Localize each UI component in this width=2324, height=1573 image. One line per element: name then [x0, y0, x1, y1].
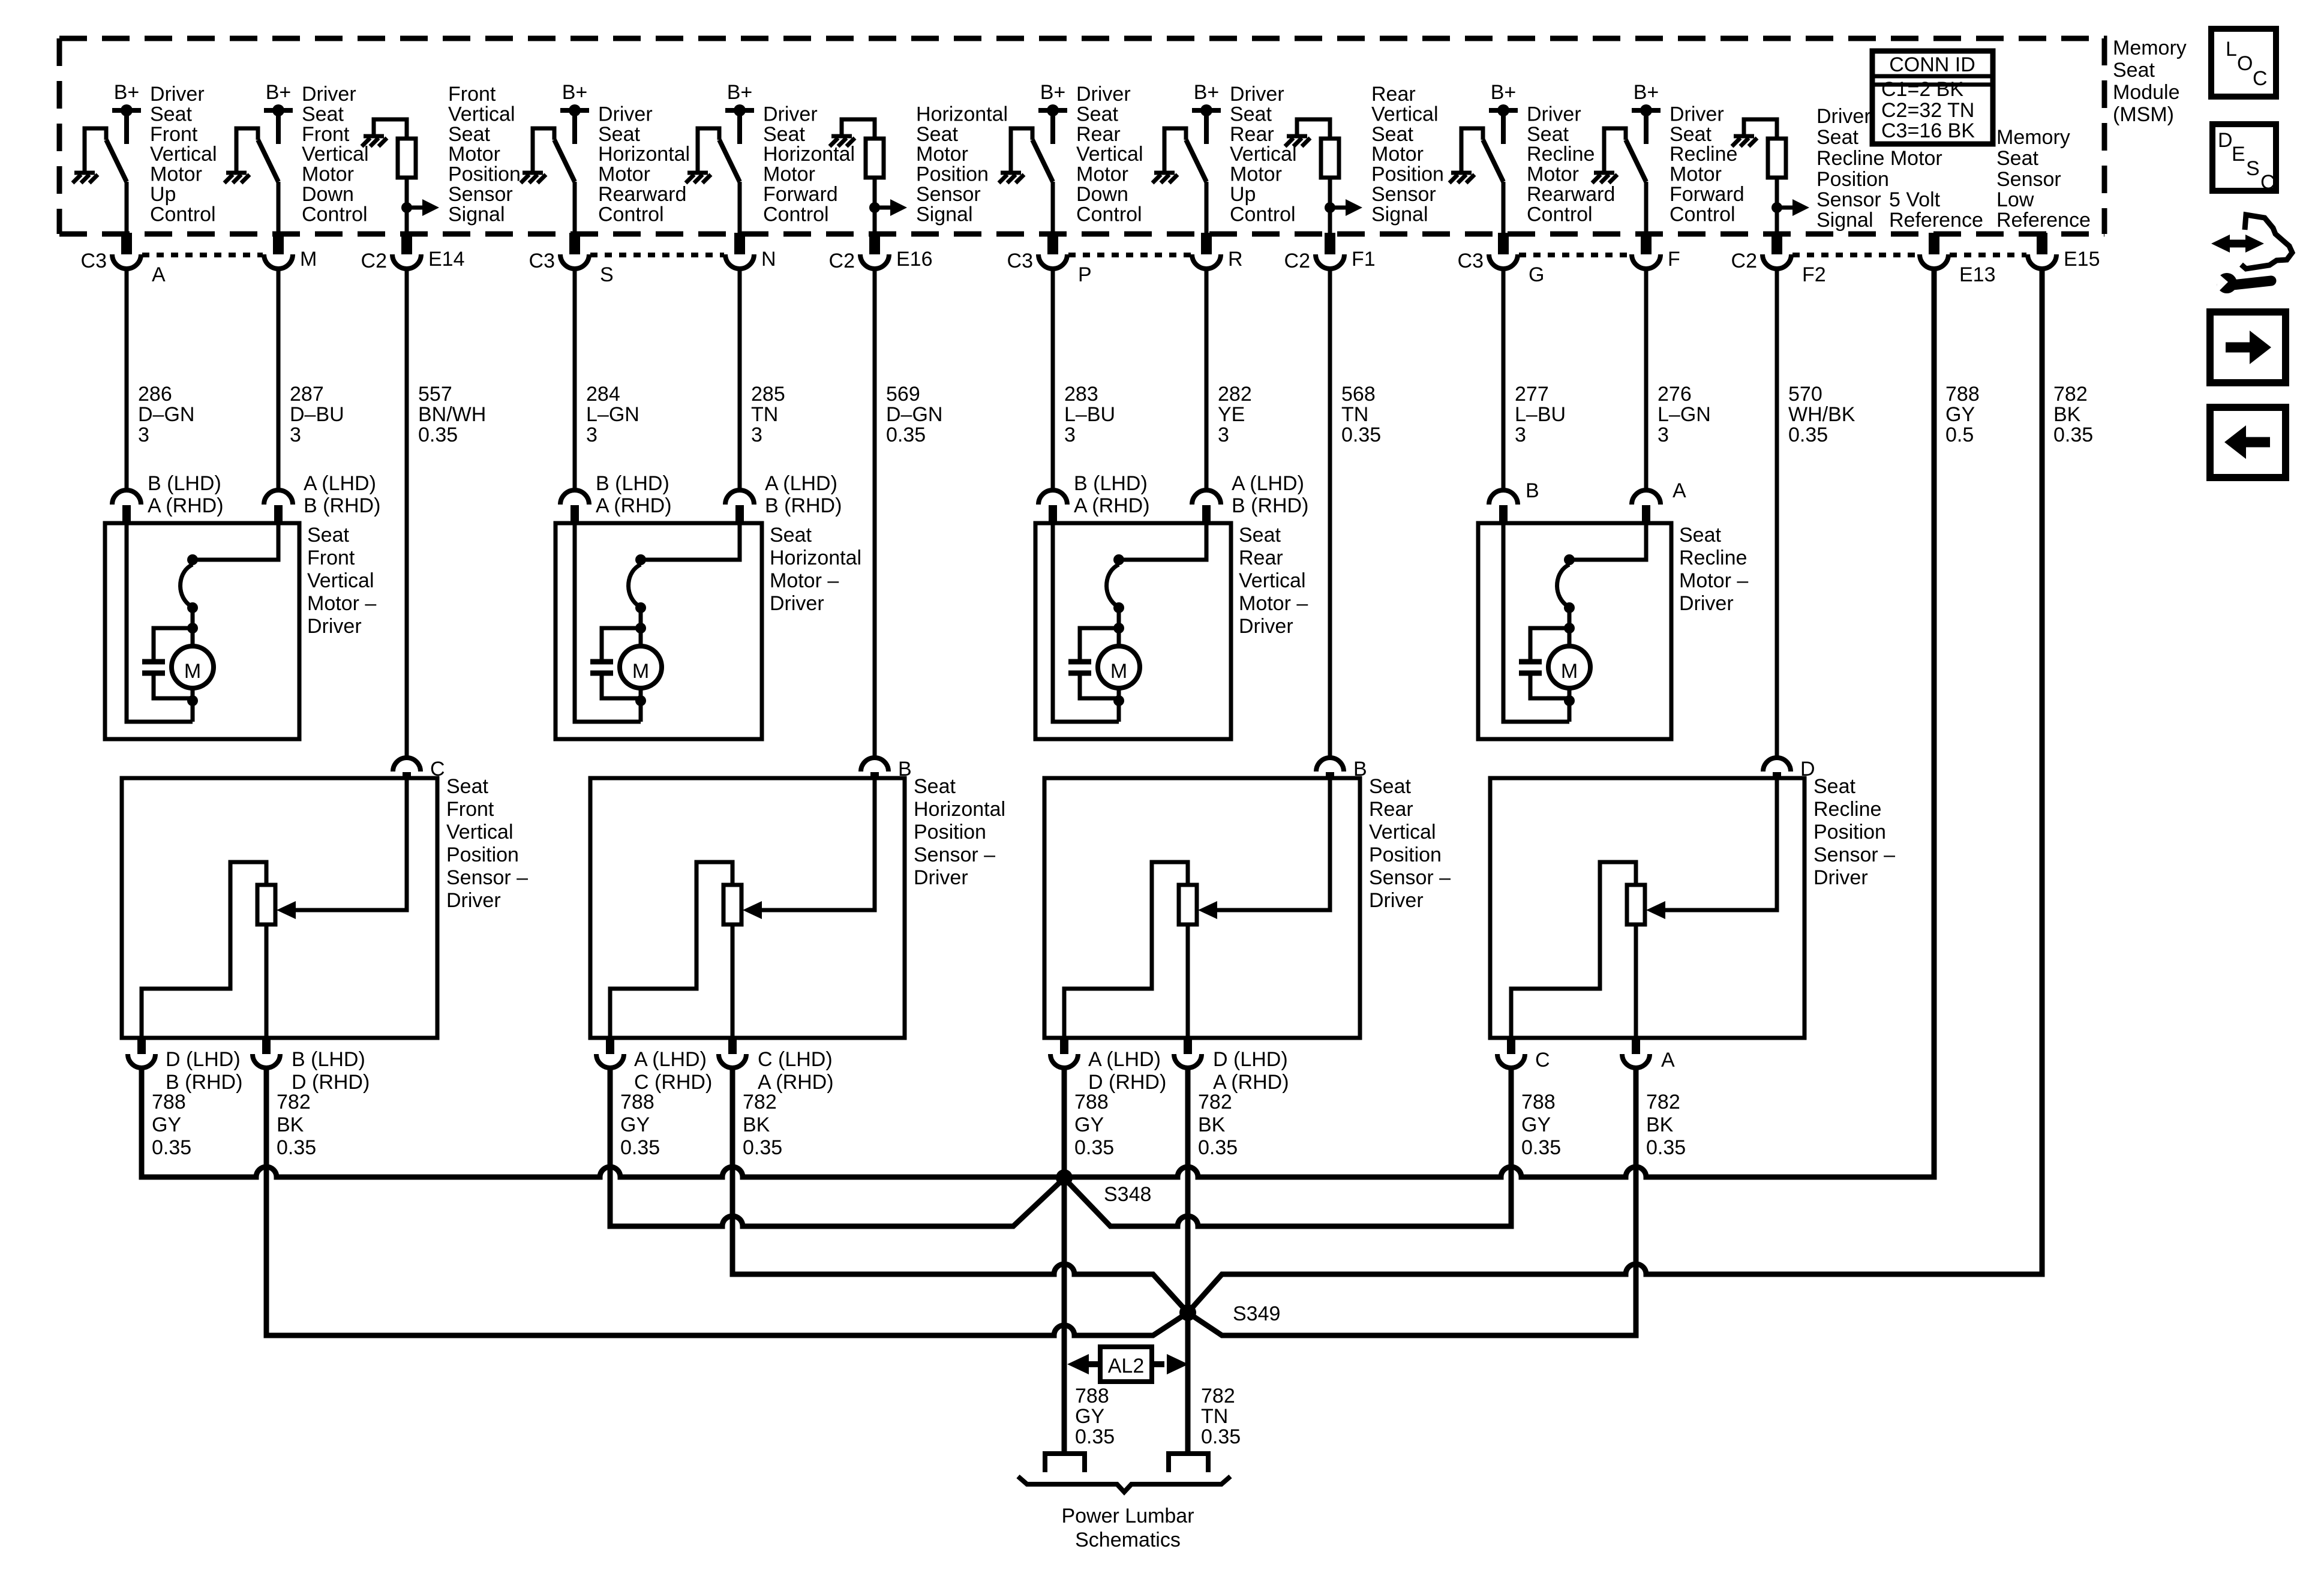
icon box with right arrow	[2210, 312, 2286, 383]
svg-text:Seat: Seat	[307, 524, 349, 547]
svg-text:3: 3	[138, 424, 149, 446]
Seat Recline Position Sensor - Driver box	[1490, 778, 1804, 1038]
svg-text:0.35: 0.35	[1646, 1136, 1686, 1159]
wire 569 from pin E16 down to sensor connector	[873, 269, 877, 758]
motor internal right wire (Front Vertical)	[193, 525, 278, 560]
splice S348	[1056, 1169, 1151, 1206]
svg-text:Forward: Forward	[1670, 183, 1744, 206]
svg-text:E: E	[2232, 143, 2245, 166]
sensor wiper feed wire and arrow (Horizontal)	[743, 780, 875, 919]
potentiometer top wire to left pin (Front Vertical)	[142, 862, 266, 1038]
B+ supply feed for Front Vertical Down control switch	[264, 81, 293, 144]
svg-text:C: C	[2253, 67, 2268, 90]
dotted connector strip line pins E13-E15	[1950, 253, 2026, 257]
svg-text:TN: TN	[751, 403, 778, 426]
svg-text:TN: TN	[1341, 403, 1368, 426]
label for switch F	[1670, 103, 1744, 226]
wire 782 BK from Front Vertical sensor pin B to splice S349 (hops over 788 wire)	[266, 1068, 1188, 1335]
sensor signal tap dot and arrow (Horizontal)	[869, 199, 907, 216]
wire from switch to pin F	[1644, 182, 1649, 233]
connector pin S (C3) at Memory Seat Module	[529, 233, 614, 286]
svg-text:Recline: Recline	[1670, 143, 1737, 166]
svg-text:Rear: Rear	[1371, 83, 1416, 106]
label 5 Volt Reference (pin E13)	[1889, 188, 1983, 232]
svg-text:Motor: Motor	[150, 163, 202, 186]
svg-text:C3: C3	[1007, 250, 1033, 272]
svg-text:Driver: Driver	[446, 889, 501, 912]
module name label Memory Seat Module (MSM)	[2113, 37, 2187, 126]
sensor wiper feed wire and arrow (Front Vertical)	[277, 780, 407, 919]
svg-text:Signal: Signal	[1371, 203, 1428, 226]
svg-text:Seat: Seat	[2113, 59, 2155, 82]
sensor box label (Seat Horizontal Position Sensor - Driver)	[914, 775, 1005, 889]
svg-text:0.35: 0.35	[277, 1136, 316, 1159]
potentiometer top wire to left pin (Horizontal)	[610, 862, 732, 1038]
svg-text:B+: B+	[1491, 81, 1517, 104]
svg-text:B (LHD): B (LHD)	[148, 472, 221, 495]
svg-text:Driver: Driver	[598, 103, 653, 125]
svg-text:788: 788	[1074, 1091, 1109, 1113]
svg-text:C2: C2	[361, 250, 387, 272]
wire from switch to pin R	[1205, 182, 1209, 233]
svg-text:Front: Front	[302, 123, 350, 146]
svg-text:Seat: Seat	[446, 775, 488, 798]
svg-text:B (RHD): B (RHD)	[304, 494, 380, 517]
motor brush arc (Front Vertical)	[181, 554, 198, 646]
wire from switch to pin N	[738, 182, 742, 233]
svg-text:Front: Front	[150, 123, 198, 146]
svg-text:Vertical: Vertical	[307, 569, 374, 592]
svg-text:F: F	[1668, 248, 1680, 271]
svg-text:0.35: 0.35	[886, 424, 926, 446]
connector pin P (C3) at Memory Seat Module	[1007, 233, 1092, 286]
svg-text:M: M	[632, 660, 649, 683]
svg-text:Control: Control	[1230, 203, 1296, 226]
svg-text:285: 285	[751, 383, 785, 406]
svg-text:Driver: Driver	[1679, 592, 1734, 615]
svg-text:Motor –: Motor –	[770, 569, 839, 592]
svg-text:3: 3	[751, 424, 762, 446]
off-page terminal clamp for 788 GY wire	[1045, 1454, 1085, 1472]
wire 782 BK from splice S349 to pin E15 (hops over 782 wire)	[1188, 269, 2042, 1313]
svg-text:5 Volt: 5 Volt	[1889, 188, 1941, 211]
svg-text:Driver: Driver	[1816, 105, 1871, 128]
svg-text:Power Lumbar: Power Lumbar	[1061, 1505, 1194, 1527]
svg-text:BK: BK	[277, 1113, 304, 1136]
svg-text:Sensor –: Sensor –	[446, 866, 528, 889]
svg-text:GY: GY	[1521, 1113, 1551, 1136]
svg-text:E14: E14	[428, 248, 465, 271]
svg-text:M: M	[1110, 660, 1127, 683]
svg-text:Driver: Driver	[302, 83, 356, 106]
motor bottom wire and junction (Front Vertical)	[187, 688, 198, 722]
wire from switch to pin G	[1502, 182, 1506, 233]
svg-text:Position: Position	[1369, 843, 1442, 866]
svg-text:Control: Control	[1670, 203, 1736, 226]
motor M circle (Seat Front Vertical Motor)	[172, 646, 214, 688]
svg-text:Seat: Seat	[916, 123, 958, 146]
svg-text:Driver: Driver	[307, 615, 362, 638]
svg-text:C3=16 BK: C3=16 BK	[1881, 119, 1975, 142]
motor M circle (Seat Recline Motor)	[1548, 646, 1590, 688]
svg-text:C (LHD): C (LHD)	[758, 1048, 833, 1071]
motor internal left wire (Recline)	[1503, 525, 1569, 722]
svg-text:Rear: Rear	[1076, 123, 1121, 146]
sensor signal tap dot and arrow (Front Vertical)	[401, 199, 439, 216]
switch Front Vertical Motor Up Control (pin A)	[85, 128, 127, 182]
wire from switch to pin P	[1051, 182, 1055, 233]
motor internal right wire (Horizontal)	[641, 525, 740, 560]
position sensor feed resistor inside module (Recline)	[1744, 119, 1786, 178]
sensor connector right pin (Recline)	[1622, 1038, 1675, 1071]
wire 277 L–BU from pin G to motor	[1502, 269, 1506, 490]
label for switch N	[763, 103, 855, 226]
B+ supply feed for Rear Vertical Down control switch	[1038, 81, 1067, 144]
position sensor potentiometer (Rear Vertical)	[1179, 885, 1197, 924]
svg-text:Vertical: Vertical	[1076, 143, 1143, 166]
svg-text:Driver: Driver	[1076, 83, 1131, 106]
wire 788 GY from Horizontal sensor pin to splice S348 branch	[610, 1068, 1064, 1226]
wire 557 from pin E14 down to sensor connector	[405, 269, 409, 758]
svg-text:3: 3	[1218, 424, 1229, 446]
wire label circuit 277 L–BU 3	[1515, 383, 1566, 446]
svg-text:0.35: 0.35	[152, 1136, 191, 1159]
svg-text:Rear: Rear	[1239, 547, 1283, 569]
svg-text:E13: E13	[1959, 263, 1996, 286]
svg-text:557: 557	[418, 383, 452, 406]
suppression capacitor across motor (Rear Vertical)	[1068, 628, 1119, 698]
wire 568 from pin F1 down to sensor connector	[1328, 269, 1332, 758]
svg-text:Position: Position	[1371, 163, 1444, 186]
svg-text:0.35: 0.35	[1521, 1136, 1561, 1159]
svg-text:A (RHD): A (RHD)	[1074, 494, 1150, 517]
suppression capacitor across motor (Horizontal)	[590, 628, 641, 698]
motor bottom wire and junction (Rear Vertical)	[1113, 688, 1124, 722]
potentiometer bottom wire to right pin (Front Vertical)	[265, 924, 269, 1038]
svg-text:782: 782	[1201, 1385, 1235, 1407]
svg-text:Memory: Memory	[1996, 126, 2070, 149]
svg-text:Control: Control	[763, 203, 829, 226]
svg-text:AL2: AL2	[1108, 1355, 1145, 1377]
ground for Horizontal Forward control switch	[686, 128, 711, 183]
position sensor potentiometer (Front Vertical)	[257, 885, 275, 924]
motor internal right wire (Recline)	[1569, 525, 1646, 560]
svg-text:Driver: Driver	[1670, 103, 1724, 125]
wire 788 GY bus from splice S348 to pin E13 (hops over 782 wires)	[1064, 269, 1934, 1177]
wire label circuit 788 GY 0.5 (E13)	[1945, 383, 1980, 446]
svg-text:GY: GY	[620, 1113, 650, 1136]
svg-text:Motor –: Motor –	[1239, 592, 1308, 615]
switch Recline Motor Forward Control (pin F)	[1604, 128, 1646, 182]
svg-text:Signal: Signal	[448, 203, 505, 226]
svg-text:C2: C2	[829, 250, 855, 272]
label Memory Seat Sensor Low Reference (pin E15)	[1996, 126, 2091, 232]
svg-text:S349: S349	[1233, 1302, 1280, 1325]
svg-text:Seat: Seat	[763, 123, 805, 146]
svg-text:F2: F2	[1802, 263, 1826, 286]
svg-text:B (LHD): B (LHD)	[292, 1048, 365, 1071]
ground for Recline Rearward control switch	[1449, 128, 1475, 183]
wire 788 GY bus from Front Vertical sensor pin D to splice S348 (hops over 782 wires)	[142, 1068, 1064, 1177]
motor box label (Seat Horizontal Motor - Driver)	[770, 524, 861, 615]
svg-text:3: 3	[1658, 424, 1669, 446]
ground for Recline position sensor resistor	[1732, 136, 1757, 146]
connector pin at Seat Front Vertical Motor left terminal	[112, 472, 224, 523]
Memory Seat Module dashed boundary box	[59, 38, 2104, 234]
svg-text:Front: Front	[446, 798, 494, 821]
svg-text:Sensor: Sensor	[1996, 168, 2061, 191]
svg-text:Sensor: Sensor	[1816, 188, 1881, 211]
svg-text:Sensor: Sensor	[1371, 183, 1436, 206]
svg-text:Seat: Seat	[1813, 775, 1855, 798]
svg-text:570: 570	[1788, 383, 1822, 406]
wire 287 D–BU from pin M to motor	[277, 269, 281, 490]
svg-text:Position: Position	[1816, 168, 1889, 191]
potentiometer bottom wire to right pin (Horizontal)	[731, 924, 735, 1038]
connector pin at Seat Horizontal Motor right terminal	[725, 472, 842, 523]
Seat Rear Vertical Position Sensor - Driver box	[1044, 778, 1360, 1038]
connector pin at Seat Horizontal Motor left terminal	[560, 472, 672, 523]
svg-text:A (RHD): A (RHD)	[596, 494, 672, 517]
wire label circuit 569 D–GN 0.35	[886, 383, 942, 446]
connector pin at Seat Rear Vertical Motor left terminal	[1038, 472, 1150, 523]
svg-text:Control: Control	[150, 203, 216, 226]
svg-text:Motor –: Motor –	[307, 592, 376, 615]
svg-text:0.35: 0.35	[1198, 1136, 1238, 1159]
svg-text:Sensor: Sensor	[448, 183, 513, 206]
svg-text:A (LHD): A (LHD)	[765, 472, 837, 495]
sensor wiper feed wire and arrow (Rear Vertical)	[1198, 780, 1330, 919]
svg-text:Reference: Reference	[1996, 209, 2091, 232]
svg-text:BK: BK	[1198, 1113, 1226, 1136]
wire 570 from pin F2 down to sensor connector	[1775, 269, 1779, 758]
svg-text:Motor: Motor	[916, 143, 968, 166]
svg-text:Seat: Seat	[1239, 524, 1281, 547]
svg-text:(MSM): (MSM)	[2113, 103, 2174, 126]
svg-text:D (LHD): D (LHD)	[1213, 1048, 1288, 1071]
svg-text:Seat: Seat	[914, 775, 956, 798]
svg-text:GY: GY	[1074, 1113, 1104, 1136]
svg-text:Motor: Motor	[763, 163, 815, 186]
svg-text:Recline Motor: Recline Motor	[1816, 147, 1942, 170]
svg-text:N: N	[761, 248, 776, 271]
wire from switch to pin A	[125, 182, 129, 233]
svg-text:D–GN: D–GN	[138, 403, 194, 426]
position sensor potentiometer (Horizontal)	[723, 885, 741, 924]
svg-text:C1=2 BK: C1=2 BK	[1881, 78, 1963, 101]
wire below resistor to pin E16	[873, 178, 877, 233]
svg-text:286: 286	[138, 383, 172, 406]
svg-text:Position: Position	[1813, 821, 1886, 843]
svg-text:BK: BK	[743, 1113, 770, 1136]
wire 286 D–GN from pin A to motor	[125, 269, 129, 490]
ground for Front Vertical Up control switch	[73, 128, 98, 183]
connector pin E14 (C2) at Memory Seat Module	[361, 233, 465, 272]
svg-text:E16: E16	[896, 248, 933, 271]
svg-text:C3: C3	[1458, 250, 1484, 272]
connector pin E13 at Memory Seat Module	[1920, 233, 1996, 286]
motor brush arc (Recline)	[1557, 554, 1575, 646]
motor M circle (Seat Horizontal Motor)	[620, 646, 662, 688]
svg-text:WH/BK: WH/BK	[1788, 403, 1855, 426]
Seat Recline Motor - Driver box	[1478, 523, 1671, 739]
svg-text:B (LHD): B (LHD)	[1074, 472, 1148, 495]
wire from switch to pin M	[277, 182, 281, 233]
svg-text:A (LHD): A (LHD)	[1088, 1048, 1161, 1071]
suppression capacitor across motor (Recline)	[1519, 628, 1569, 698]
wire label circuit 287 D–BU 3	[290, 383, 344, 446]
ground for Horizontal Rearward control switch	[521, 128, 546, 183]
svg-text:Control: Control	[302, 203, 368, 226]
svg-text:Vertical: Vertical	[1371, 103, 1439, 125]
svg-text:GY: GY	[152, 1113, 181, 1136]
wire 788 GY from Recline sensor pin C to splice S348 branch	[1064, 1068, 1511, 1226]
svg-text:Seat: Seat	[598, 123, 640, 146]
svg-text:Horizontal: Horizontal	[914, 798, 1005, 821]
svg-text:O: O	[2237, 52, 2253, 75]
switch Rear Vertical Motor Down Control (pin P)	[1011, 128, 1053, 182]
connector pin G (C3) at Memory Seat Module	[1458, 233, 1545, 286]
svg-text:Recline: Recline	[1679, 547, 1747, 569]
ground for Rear Vertical position sensor resistor	[1285, 136, 1310, 146]
svg-text:Seat: Seat	[1076, 103, 1118, 125]
svg-text:Vertical: Vertical	[302, 143, 369, 166]
sensor connector left pin (Rear Vertical)	[1050, 1038, 1166, 1094]
wire label circuit 782 TN 0.35 (to Power Lumbar)	[1201, 1385, 1241, 1448]
svg-text:F1: F1	[1352, 248, 1376, 271]
svg-text:C: C	[1535, 1049, 1550, 1071]
svg-text:L–GN: L–GN	[1658, 403, 1711, 426]
svg-text:0.35: 0.35	[2053, 424, 2093, 446]
svg-text:Horizontal: Horizontal	[763, 143, 855, 166]
svg-text:Signal: Signal	[1816, 209, 1873, 232]
svg-text:P: P	[1078, 263, 1092, 286]
dotted connector strip line C3 pins A-M	[142, 253, 263, 257]
motor box label (Seat Front Vertical Motor - Driver)	[307, 524, 376, 638]
svg-text:A: A	[1661, 1049, 1675, 1071]
svg-text:0.35: 0.35	[418, 424, 458, 446]
wire 782 TN through splice S349 down to Power Lumbar	[1185, 1068, 1191, 1451]
svg-text:C3: C3	[529, 250, 555, 272]
svg-text:Position: Position	[914, 821, 986, 843]
svg-text:C3: C3	[81, 250, 107, 272]
svg-text:Driver: Driver	[150, 83, 205, 106]
svg-text:Motor: Motor	[302, 163, 354, 186]
svg-text:Rear: Rear	[1369, 798, 1413, 821]
svg-text:S: S	[600, 263, 614, 286]
wire label 782 BK 0.35 (Recline sensor return)	[1646, 1091, 1686, 1159]
svg-text:Control: Control	[1527, 203, 1593, 226]
svg-text:A: A	[1673, 479, 1686, 502]
svg-text:B+: B+	[562, 81, 588, 104]
position sensor potentiometer (Recline)	[1627, 885, 1645, 924]
ground for Rear Vertical Down control switch	[999, 128, 1024, 183]
ground for Horizontal position sensor resistor	[830, 136, 855, 146]
sensor connector left pin (Recline)	[1497, 1038, 1550, 1071]
svg-text:Motor: Motor	[1230, 163, 1282, 186]
svg-text:B+: B+	[266, 81, 292, 104]
brace for Power Lumbar Schematics	[1018, 1476, 1230, 1492]
CONN ID table	[1872, 51, 1993, 144]
svg-text:Motor: Motor	[448, 143, 500, 166]
sensor connector right pin (Horizontal)	[719, 1038, 834, 1094]
switch Horizontal Motor Forward Control (pin N)	[698, 128, 740, 182]
svg-text:Memory: Memory	[2113, 37, 2187, 59]
signal label column (Horizontal Position Sensor Signal)	[916, 103, 1008, 226]
wire label circuit 284 L–GN 3	[586, 383, 639, 446]
svg-text:CONN ID: CONN ID	[1889, 53, 1975, 76]
svg-text:A (LHD): A (LHD)	[634, 1048, 707, 1071]
svg-text:BK: BK	[2053, 403, 2081, 426]
motor internal right wire (Rear Vertical)	[1119, 525, 1206, 560]
svg-text:D: D	[2218, 129, 2233, 152]
switch Horizontal Motor Rearward Control (pin S)	[533, 128, 575, 182]
connector pin at Seat Front Vertical Motor right terminal	[264, 472, 380, 523]
potentiometer bottom wire to right pin (Rear Vertical)	[1186, 924, 1190, 1038]
wire label 788 GY 0.35 (Front Vertical sensor low)	[152, 1091, 191, 1159]
svg-text:Vertical: Vertical	[150, 143, 217, 166]
dotted connector strip line C3 pins S-N	[590, 253, 724, 257]
signal label column (Rear Vertical Position Sensor Signal)	[1371, 83, 1444, 226]
svg-text:Seat: Seat	[150, 103, 192, 125]
sensor connector left pin (Horizontal)	[596, 1038, 712, 1094]
svg-text:Rearward: Rearward	[1527, 183, 1615, 206]
wire label circuit 276 L–GN 3	[1658, 383, 1711, 446]
connector pin E16 (C2) at Memory Seat Module	[829, 233, 933, 272]
in-line connector pin B on sensor signal wire (Horizontal)	[861, 758, 912, 781]
motor bottom wire and junction (Recline)	[1564, 688, 1575, 722]
svg-text:0.35: 0.35	[743, 1136, 782, 1159]
svg-text:Sensor –: Sensor –	[914, 843, 995, 866]
motor internal left wire (Horizontal)	[575, 525, 641, 722]
svg-text:Horizontal: Horizontal	[598, 143, 690, 166]
svg-text:Seat: Seat	[1996, 147, 2038, 170]
ground for Rear Vertical Up control switch	[1152, 128, 1178, 183]
wire 284 L–GN from pin S to motor	[573, 269, 577, 490]
svg-text:Schematics: Schematics	[1075, 1529, 1181, 1551]
svg-text:M: M	[300, 248, 317, 271]
svg-text:A (LHD): A (LHD)	[1232, 472, 1304, 495]
svg-text:Motor: Motor	[1670, 163, 1722, 186]
svg-text:788: 788	[1521, 1091, 1556, 1113]
svg-text:B (RHD): B (RHD)	[1232, 494, 1308, 517]
svg-text:Driver: Driver	[1239, 615, 1293, 638]
svg-text:782: 782	[1646, 1091, 1680, 1113]
svg-text:Front: Front	[448, 83, 496, 106]
signal label column (Driver Seat Recline Motor Position Sensor Signal)	[1816, 105, 1942, 232]
wire label circuit 570 WH/BK 0.35	[1788, 383, 1855, 446]
switch Recline Motor Rearward Control (pin G)	[1461, 128, 1503, 182]
svg-text:Seat: Seat	[448, 123, 490, 146]
svg-text:569: 569	[886, 383, 920, 406]
wire label circuit 568 TN 0.35	[1341, 383, 1381, 446]
wire label circuit 557 BN/WH 0.35	[418, 383, 486, 446]
svg-text:B+: B+	[114, 81, 140, 104]
wire label 788 GY 0.35 (Recline sensor low)	[1521, 1091, 1561, 1159]
svg-text:Seat: Seat	[1527, 123, 1569, 146]
svg-text:L–GN: L–GN	[586, 403, 639, 426]
svg-text:C2: C2	[1284, 250, 1310, 272]
svg-text:782: 782	[2053, 383, 2088, 406]
svg-text:282: 282	[1218, 383, 1252, 406]
ground for Front Vertical Down control switch	[224, 128, 250, 183]
svg-text:B: B	[1526, 479, 1539, 502]
icon box DESC	[2212, 124, 2276, 194]
wire label 782 BK 0.35 (Front Vertical sensor return)	[277, 1091, 316, 1159]
svg-text:Driver: Driver	[770, 592, 824, 615]
sensor connector right pin (Rear Vertical)	[1174, 1038, 1289, 1094]
svg-text:B+: B+	[727, 81, 753, 104]
